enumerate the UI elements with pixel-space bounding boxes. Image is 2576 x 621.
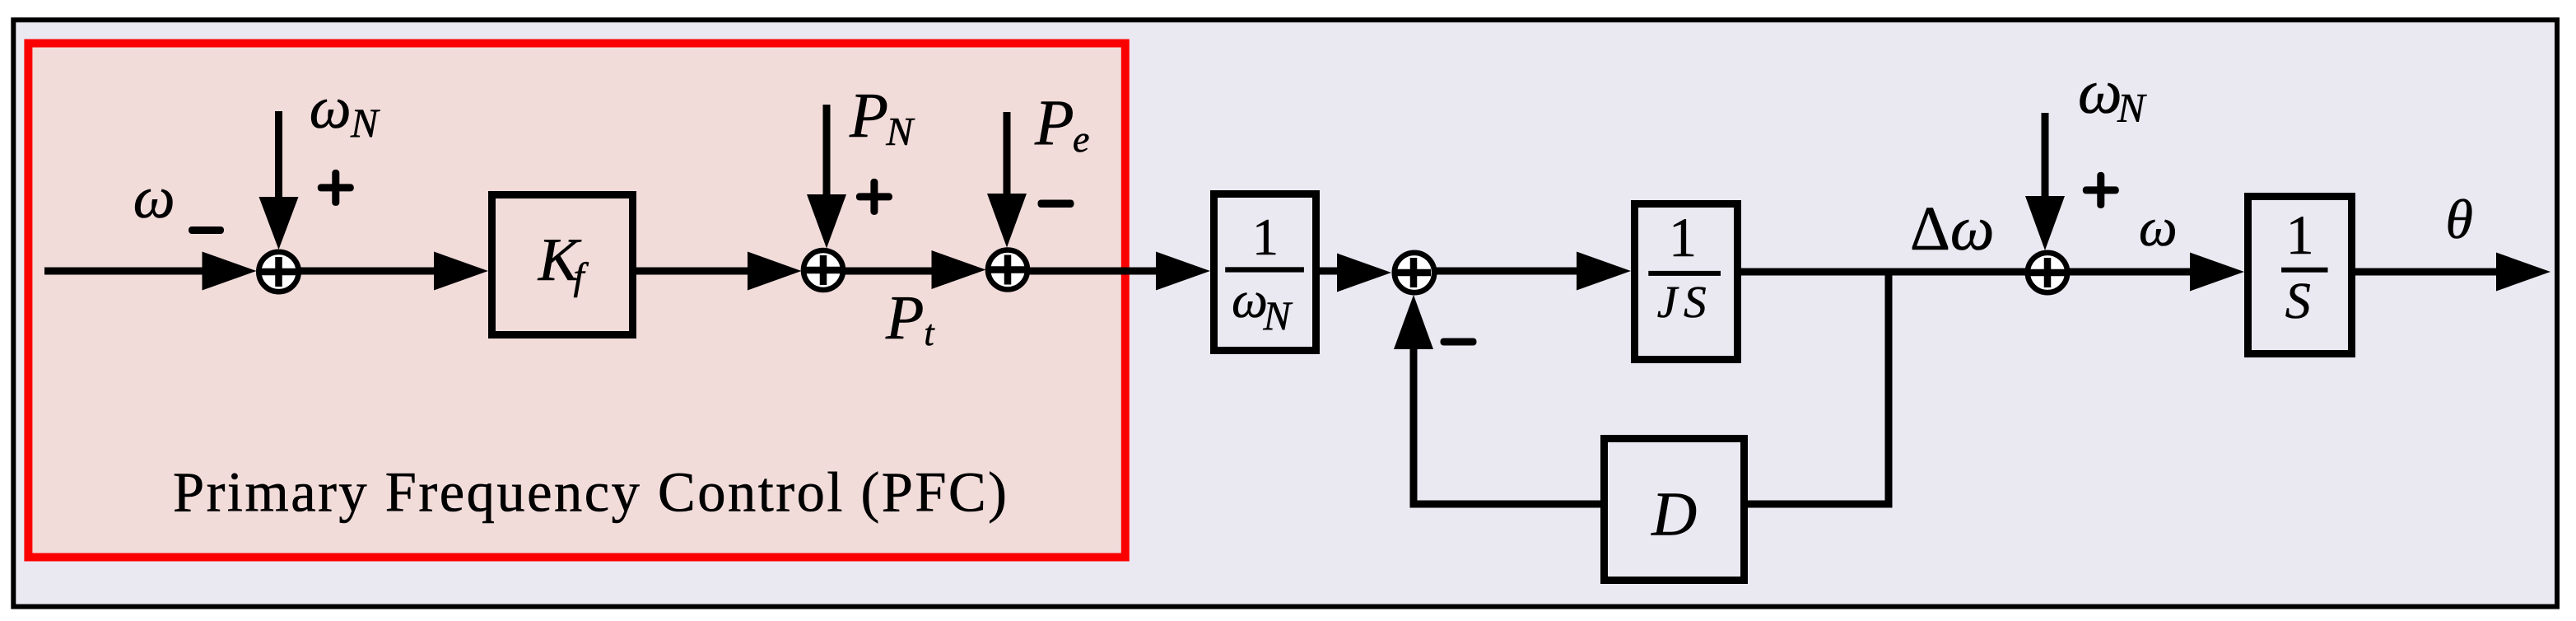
svg-text:θ: θ — [2446, 188, 2473, 250]
svg-text:N: N — [350, 100, 380, 146]
svg-text:D: D — [1651, 480, 1697, 549]
svg-text:Δω: Δω — [1910, 194, 1995, 264]
svg-text:ω: ω — [133, 165, 175, 231]
svg-text:ω: ω — [310, 75, 352, 141]
svg-text:N: N — [1263, 292, 1293, 339]
svg-text:ω: ω — [1232, 273, 1268, 329]
svg-text:Primary Frequency Control (PFC: Primary Frequency Control (PFC) — [173, 461, 1009, 524]
svg-text:ω: ω — [2078, 58, 2122, 127]
svg-text:1: 1 — [1669, 206, 1697, 268]
svg-text:1: 1 — [1252, 208, 1279, 266]
svg-text:JS: JS — [1657, 277, 1713, 327]
svg-text:P: P — [885, 283, 924, 353]
svg-text:e: e — [1073, 118, 1089, 160]
svg-text:P: P — [1034, 86, 1074, 158]
svg-text:S: S — [2285, 273, 2311, 329]
svg-text:1: 1 — [2286, 203, 2314, 266]
svg-text:ω: ω — [2139, 198, 2178, 258]
svg-text:N: N — [2117, 85, 2147, 131]
svg-text:t: t — [924, 313, 935, 353]
svg-text:N: N — [885, 109, 915, 154]
svg-text:P: P — [849, 80, 888, 151]
